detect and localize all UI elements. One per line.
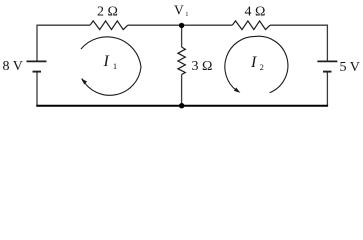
wire: top rail (left corner to 2ohm resistor) (37, 24, 90, 26)
svg-text:5 V: 5 V (340, 60, 360, 75)
wire: middle branch lower (3ohm resistor down to bottom node) (181, 75, 183, 106)
svg-text:I: I (103, 53, 110, 70)
battery 5V: positive (long) plate (317, 60, 337, 62)
svg-text:8 V: 8 V (3, 59, 23, 74)
wire: top rail (2ohm resistor to 4ohm resistor, through node V1) (128, 24, 233, 26)
svg-text:2 Ω: 2 Ω (97, 4, 118, 19)
wire: top rail (4ohm resistor to top-right corner) (270, 24, 328, 26)
resistor 3 ohm (middle vertical zigzag) (178, 47, 185, 75)
battery 8V: negative (short) plate (33, 71, 42, 73)
svg-text:I: I (250, 54, 257, 71)
svg-text:3 Ω: 3 Ω (192, 59, 213, 74)
mesh current loop I2 (counter-clockwise arc, right mesh) (225, 36, 288, 92)
arrowhead of I2 loop (points down-right) (234, 88, 240, 93)
svg-text:2: 2 (260, 62, 264, 72)
svg-text:1: 1 (185, 11, 188, 18)
battery 8V: positive (long) plate (27, 60, 47, 62)
arrowhead of I1 loop (points up-left) (81, 79, 87, 85)
svg-text:1: 1 (113, 61, 117, 71)
wire: left rail lower (8V battery down to bottom-left corner) (36, 72, 38, 106)
wire: right rail upper (top-right corner down to 5V battery) (326, 25, 328, 62)
junction dot (bottom node) (179, 103, 184, 108)
resistor 4 ohm (top-right zigzag) (232, 21, 270, 30)
wire: bottom rail (36, 105, 328, 107)
resistor 2 ohm (top-left zigzag) (90, 21, 128, 30)
wire: right rail lower (5V battery down to bottom-right corner) (326, 72, 328, 106)
svg-text:4 Ω: 4 Ω (245, 4, 266, 19)
svg-text:V: V (174, 3, 184, 18)
mesh current loop I1 (clockwise arc, left mesh) (81, 37, 141, 95)
wire: middle branch upper (node V1 down to 3ohm resistor) (181, 25, 183, 47)
node V1 junction dot (179, 23, 184, 28)
battery 5V: negative (short) plate (323, 71, 332, 73)
wire: left rail upper (top-left corner down to 8V battery) (36, 25, 38, 62)
